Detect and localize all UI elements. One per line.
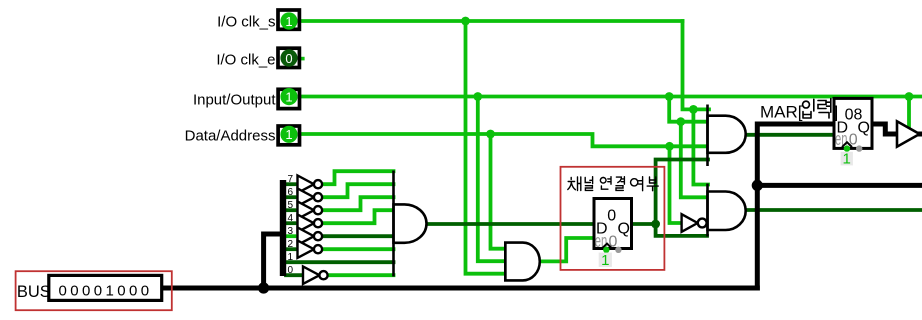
svg-text:1: 1 [843,151,851,168]
MAR enable hint 1 [841,151,853,168]
wire clk_s branch to AND2 [693,109,708,184]
wire I/O branch to mid AND [478,97,506,262]
wire inverter5 out staircase [322,197,394,210]
wire inverter7 out staircase [322,171,394,184]
splitter bit labels [288,174,294,276]
wire splitter bit1 straight dark [286,260,394,264]
wire bus up to MAR D [757,124,834,288]
wire D/A branch to mid AND [491,134,506,249]
wire NOT2 output stub [707,221,709,225]
wire bus branch to splitter [264,234,281,288]
wire splitter bit3 stub bright [286,234,298,238]
inverter bit7 [298,176,323,193]
controlled buffer U6 [897,121,920,146]
svg-text:2: 2 [288,239,294,250]
svg-text:1: 1 [285,89,292,104]
inverter bit4 [298,215,323,232]
wire mid AND output to FF enable [540,238,594,261]
svg-text:5: 5 [288,200,294,211]
wire Q down to AND2 input5 [656,224,707,236]
inverter bit2 [298,241,323,258]
inverter bit0 [303,267,328,284]
and gate U4 bottom right [708,184,746,237]
wire inverter6 out staircase [322,184,394,197]
svg-text:0: 0 [288,265,294,276]
and gate U3 top right [708,105,746,167]
svg-text:Input/Output: Input/Output [193,92,276,109]
inverter bit3 [298,228,323,245]
wire Data/Address horizontal [301,134,709,146]
wire inverter3 out dark [322,234,394,238]
node Q junction [651,220,660,229]
wire branch down to AND2 input2 [681,122,709,198]
node bus junction2 [752,180,763,191]
wire Q up to AND1 input5 [656,160,708,225]
wire I/O branch to buffer control [907,97,911,129]
inverter bit6 [298,189,323,206]
annotation box BUS [16,271,172,310]
wire clk_s branch vertical to mid AND [466,21,506,274]
register MAR box [834,98,872,151]
svg-text:I/O clk_e: I/O clk_e [216,52,275,69]
not gate U5 [682,214,707,232]
svg-text:Q: Q [858,120,870,137]
node bus junction [258,282,269,293]
pin I/O clk_e [278,48,299,67]
pin I/O clk_s [278,10,299,30]
wire buffer output stub [919,132,922,137]
and gate U2 3-input [505,242,539,280]
svg-text:1: 1 [285,14,292,29]
wire splitter stub bit0 [286,273,303,277]
svg-text:0: 0 [285,51,292,66]
wire MAR Q to buffer [872,124,897,134]
node I/O junction3 [905,92,914,101]
flip-flop FF1 box [594,199,632,254]
node I/O junction1 [473,92,482,101]
label MAR korean [760,99,838,122]
node clk_s junction [461,17,470,26]
svg-text:BUS: BUS [17,283,51,301]
wire AND1 output to MAR enable [746,133,834,137]
and gate U1 8-input [394,171,427,277]
wire AND8 output to FF D [427,222,595,226]
FF1 enable hint 1 [599,252,612,269]
wire bus branch to right edge [757,183,922,188]
svg-text:7: 7 [288,174,294,185]
wire I/O branch to AND1 input2 [669,97,709,122]
wire splitter stub bit7 dark [286,182,298,186]
node clk_s to AND1 junction [689,105,698,114]
pin Input/Output [278,88,299,109]
splitter spine [280,180,286,276]
wire pin clk_e stub [301,57,305,61]
wire D/A branch down to NOT input [670,146,682,223]
wire clk_s right elbow down [683,21,710,109]
svg-text:4: 4 [288,213,294,224]
wire inverter0 out [327,273,394,277]
label channel korean 채널 연결 여부 [568,177,658,191]
wire Input/Output horizontal full [301,95,922,99]
svg-text:3: 3 [288,226,294,237]
wire splitter stub bit2 [286,247,298,251]
svg-text:1: 1 [285,127,292,142]
wire AND2 output to right edge [746,208,922,212]
svg-text:Data/Address: Data/Address [185,128,276,145]
svg-text:6: 6 [288,187,294,198]
wire bus from BUS register [162,286,758,291]
node junction AND1-in2 [676,117,685,126]
svg-text:0: 0 [607,208,616,225]
node D/A junction2 [665,142,674,151]
wire splitter stub bit6 [286,195,298,199]
node I/O junction2 [665,92,674,101]
wire FF Q output [632,222,656,226]
wire clk_s horizontal [301,19,683,23]
node D/A junction1 [486,130,495,139]
annotation box channel [561,167,665,270]
wire inverter2 out [322,247,394,251]
register BUS box [17,275,162,301]
svg-text:1: 1 [288,252,294,263]
wire inverter4 out staircase [322,210,394,223]
wire splitter stub bit4 [286,221,298,225]
wire splitter stub bit5 [286,208,298,212]
svg-text:00001000: 00001000 [59,283,153,300]
inverter bit5 [298,202,323,219]
svg-text:Q: Q [618,221,630,238]
svg-text:I/O clk_s: I/O clk_s [217,14,275,31]
svg-text:]: ] [834,103,839,122]
pin Data/Address [278,126,299,145]
svg-text:MAR[: MAR[ [760,103,803,122]
svg-text:1: 1 [601,252,609,269]
